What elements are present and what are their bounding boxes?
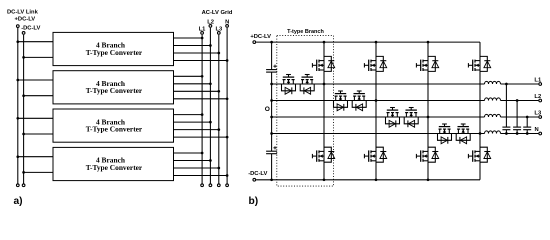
converter block 2: 4 Branch T-Type Converter bbox=[53, 71, 174, 104]
wire row 2 to terminal bbox=[501, 100, 539, 102]
label -DC-LV (b) bbox=[248, 171, 267, 177]
terminal L2 (b) bbox=[539, 99, 542, 102]
svg-text:L3: L3 bbox=[534, 110, 542, 116]
terminal -DC-LV top (a) bbox=[22, 32, 25, 35]
converter block 3: 4 Branch T-Type Converter bbox=[53, 109, 174, 142]
label AC-LV Grid bbox=[202, 10, 233, 16]
wire -DC input block 1 bbox=[22, 56, 53, 59]
wire block 3 output to N bbox=[174, 136, 229, 139]
label L2 (b) bbox=[534, 94, 541, 100]
wire block 1 output to L1 bbox=[174, 37, 204, 40]
wire cap L1 drop bbox=[505, 83, 508, 135]
terminal N bottom bbox=[226, 184, 229, 187]
svg-text:a): a) bbox=[14, 196, 23, 207]
wire -DC-LV bus (a) bbox=[23, 35, 25, 184]
terminal L1 top bbox=[201, 32, 204, 35]
capacitor CL1N bbox=[502, 127, 510, 130]
wire branch 2 leg bbox=[375, 41, 378, 181]
wire block 3 output to L1 bbox=[174, 113, 204, 116]
wire +DC-LV bus (a) bbox=[17, 28, 19, 184]
wire branch 1 leg bbox=[323, 41, 326, 181]
wire branch 3 leg bbox=[427, 41, 430, 181]
svg-text:-DC-LV: -DC-LV bbox=[21, 26, 40, 32]
svg-text:+DC-LV: +DC-LV bbox=[250, 34, 271, 40]
svg-text:N: N bbox=[535, 127, 539, 133]
wire L1 bus bbox=[201, 35, 203, 184]
terminal L1 (b) bbox=[539, 83, 542, 86]
label O midpoint bbox=[265, 106, 270, 113]
wire block 1 output to L2 bbox=[174, 44, 212, 47]
wire DC bus upper bbox=[270, 41, 273, 70]
mosfet S1c bidirectional switch left of branch 1 bbox=[282, 75, 296, 95]
wire block 2 output to L1 bbox=[174, 75, 204, 78]
terminal L1 bottom bbox=[201, 184, 204, 187]
mosfet S2d bidirectional switch right of branch 2 bbox=[352, 91, 366, 111]
mosfet S2t top switch branch 2 with body diode bbox=[364, 56, 386, 71]
svg-text:DC-LV Link: DC-LV Link bbox=[7, 10, 39, 16]
wire block 4 output to L3 bbox=[174, 167, 221, 170]
wire -DC input block 2 bbox=[22, 94, 53, 97]
wire output row 4 bbox=[270, 132, 484, 135]
wire row 1 to terminal bbox=[501, 83, 539, 85]
wire block 2 output to L3 bbox=[174, 90, 221, 93]
label L3 (a) bbox=[216, 27, 224, 33]
terminal L2 bottom bbox=[209, 184, 212, 187]
label N (b) bbox=[535, 127, 539, 133]
terminal L3 top bbox=[217, 32, 220, 35]
wire block 4 output to L2 bbox=[174, 159, 212, 162]
terminal N top bbox=[226, 25, 229, 28]
inductor L2 filter bbox=[485, 98, 501, 101]
wire +DC input block 1 bbox=[16, 40, 53, 43]
terminal L2 top bbox=[209, 25, 212, 28]
svg-text:T-Type Converter: T-Type Converter bbox=[86, 124, 143, 133]
label L1 (b) bbox=[534, 77, 542, 83]
wire block 3 output to L3 bbox=[174, 128, 221, 131]
wire branch 4 leg bbox=[479, 42, 481, 180]
wire output row 1 bbox=[270, 83, 484, 86]
terminal L3 bottom bbox=[217, 184, 220, 187]
label DC-LV Link bbox=[7, 10, 39, 16]
mosfet S2b bottom switch branch 2 with body diode bbox=[364, 147, 386, 162]
svg-text:T-Type Converter: T-Type Converter bbox=[86, 86, 143, 95]
label L3 (b) bbox=[534, 110, 542, 116]
wire N bus bbox=[226, 28, 228, 184]
mosfet S3c bidirectional switch left of branch 3 bbox=[386, 108, 400, 128]
mosfet S3t top switch branch 3 with body diode bbox=[416, 56, 438, 71]
converter block 4: 4 Branch T-Type Converter bbox=[53, 147, 174, 180]
mosfet S1b bottom switch branch 1 with body diode bbox=[312, 147, 334, 162]
wire row 3 to terminal bbox=[501, 116, 539, 118]
mosfet S4c bidirectional switch left of branch 4 bbox=[438, 124, 452, 144]
wire block 1 output to L3 bbox=[174, 52, 221, 55]
label a) bbox=[14, 196, 23, 207]
wire DC bus middle bbox=[271, 72, 273, 151]
wire L3 bus bbox=[218, 35, 220, 184]
inductor L3 filter bbox=[485, 114, 501, 117]
terminal +DC-LV bottom (a) bbox=[16, 184, 19, 187]
svg-text:O: O bbox=[265, 106, 270, 113]
wire output row 2 bbox=[270, 99, 484, 102]
mosfet S4d bidirectional switch right of branch 4 bbox=[456, 124, 470, 144]
capacitor CL2N bbox=[513, 127, 521, 130]
svg-text:b): b) bbox=[249, 196, 259, 207]
svg-text:L2: L2 bbox=[534, 94, 541, 100]
terminal L3 (b) bbox=[539, 116, 542, 119]
capacitor Cdc2 bbox=[266, 146, 277, 154]
svg-text:L1: L1 bbox=[534, 77, 542, 83]
mosfet S1t top switch branch 1 with body diode bbox=[312, 56, 334, 71]
wire block 3 output to L2 bbox=[174, 121, 212, 124]
wire cap L2 drop bbox=[516, 99, 519, 135]
mosfet S2c bidirectional switch left of branch 2 bbox=[334, 91, 348, 111]
label L1 (a) bbox=[199, 27, 207, 33]
terminal -DC-LV bottom (a) bbox=[22, 184, 25, 187]
mosfet S3d bidirectional switch right of branch 3 bbox=[404, 108, 418, 128]
wire DC bus lower bbox=[270, 154, 273, 181]
wire block 4 output to N bbox=[174, 174, 229, 177]
wire block 2 output to L2 bbox=[174, 82, 212, 85]
wire -DC input block 3 bbox=[22, 133, 53, 136]
wire +DC input block 2 bbox=[16, 79, 53, 82]
wire L2 bus bbox=[209, 28, 211, 184]
label -DC-LV (a) bbox=[21, 26, 40, 32]
label N (a) bbox=[225, 20, 229, 26]
svg-text:AC-LV Grid: AC-LV Grid bbox=[202, 10, 233, 16]
svg-text:T-Type Converter: T-Type Converter bbox=[86, 48, 143, 57]
wire -DC rail bbox=[256, 179, 480, 181]
svg-text:-DC-LV: -DC-LV bbox=[248, 171, 267, 177]
mosfet S1d bidirectional switch right of branch 1 bbox=[300, 75, 314, 95]
label +DC-LV (a) bbox=[15, 17, 36, 23]
wire cap L3 drop bbox=[526, 116, 529, 135]
mosfet S4b bottom switch branch 4 with body diode bbox=[468, 147, 490, 162]
label b) bbox=[249, 196, 259, 207]
svg-text:+DC-LV: +DC-LV bbox=[15, 17, 36, 23]
terminal N (b) bbox=[539, 132, 542, 135]
wire +DC input block 4 bbox=[16, 155, 53, 158]
mosfet S3b bottom switch branch 3 with body diode bbox=[416, 147, 438, 162]
label T-type Branch bbox=[287, 29, 324, 35]
inductor L1 filter bbox=[485, 81, 501, 84]
svg-text:T-type Branch: T-type Branch bbox=[287, 29, 324, 35]
label L2 (a) bbox=[207, 20, 214, 26]
wire -DC input block 4 bbox=[22, 171, 53, 174]
wire row 4 to terminal bbox=[501, 133, 539, 135]
label +DC-LV (b) bbox=[250, 34, 271, 40]
wire block 2 output to N bbox=[174, 97, 229, 100]
capacitor CL3N bbox=[523, 127, 531, 130]
dashed box T-type Branch bbox=[277, 36, 334, 187]
terminal +DC-LV top (a) bbox=[16, 25, 19, 28]
capacitor Cdc1 bbox=[266, 65, 277, 73]
mosfet S4t top switch branch 4 with body diode bbox=[468, 56, 490, 71]
svg-text:T-Type Converter: T-Type Converter bbox=[86, 163, 143, 172]
terminal +DC-LV (b) bbox=[253, 41, 256, 44]
wire output row 3 bbox=[270, 116, 484, 119]
wire block 4 output to L1 bbox=[174, 152, 204, 155]
converter block 1: 4 Branch T-Type Converter bbox=[53, 32, 174, 65]
wire +DC input block 3 bbox=[16, 117, 53, 120]
wire +DC rail bbox=[256, 41, 480, 43]
wire block 1 output to N bbox=[174, 59, 229, 62]
inductor L4 filter bbox=[485, 131, 501, 134]
terminal -DC-LV (b) bbox=[253, 178, 256, 181]
